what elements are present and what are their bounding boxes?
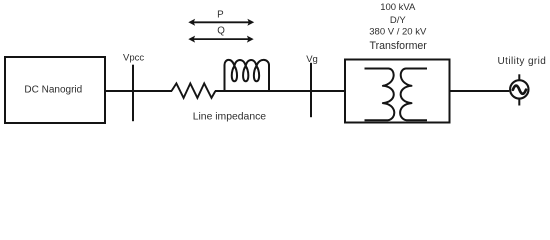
transformer T1 box bbox=[345, 60, 450, 123]
svg-text:Q: Q bbox=[217, 25, 225, 36]
svg-text:DC Nanogrid: DC Nanogrid bbox=[24, 84, 82, 95]
svg-text:P: P bbox=[217, 9, 224, 20]
resistor (line impedance R) bbox=[172, 83, 216, 98]
AC source G1 (utility grid) circle bbox=[510, 80, 528, 98]
transformer primary winding bbox=[365, 69, 395, 121]
svg-text:Line impedance: Line impedance bbox=[193, 111, 267, 122]
arrow P (double-headed) bbox=[188, 19, 254, 26]
svg-text:D/Y: D/Y bbox=[390, 15, 407, 26]
svg-text:380 V / 20 kV: 380 V / 20 kV bbox=[369, 27, 427, 38]
wire: nanogrid box to resistor bbox=[106, 90, 172, 92]
AC source top stub bbox=[518, 74, 520, 80]
svg-text:Transformer: Transformer bbox=[370, 40, 428, 52]
svg-text:Vg: Vg bbox=[306, 54, 318, 65]
node Vpcc bus bbox=[132, 65, 134, 122]
node Vg bus bbox=[310, 63, 312, 117]
svg-text:100 kVA: 100 kVA bbox=[380, 2, 416, 13]
arrow Q (double-headed) bbox=[188, 36, 253, 43]
wire: resistor to transformer box bbox=[215, 90, 345, 92]
AC source bottom stub bbox=[518, 99, 520, 106]
inductor coil (line impedance L) bbox=[225, 60, 270, 91]
wire: transformer to utility grid bbox=[450, 90, 509, 92]
DC Nanogrid box bbox=[5, 57, 105, 123]
svg-text:Utility grid: Utility grid bbox=[498, 56, 547, 67]
svg-text:Vpcc: Vpcc bbox=[123, 53, 144, 64]
transformer secondary winding bbox=[400, 69, 427, 121]
AC source sine wave bbox=[513, 86, 526, 94]
